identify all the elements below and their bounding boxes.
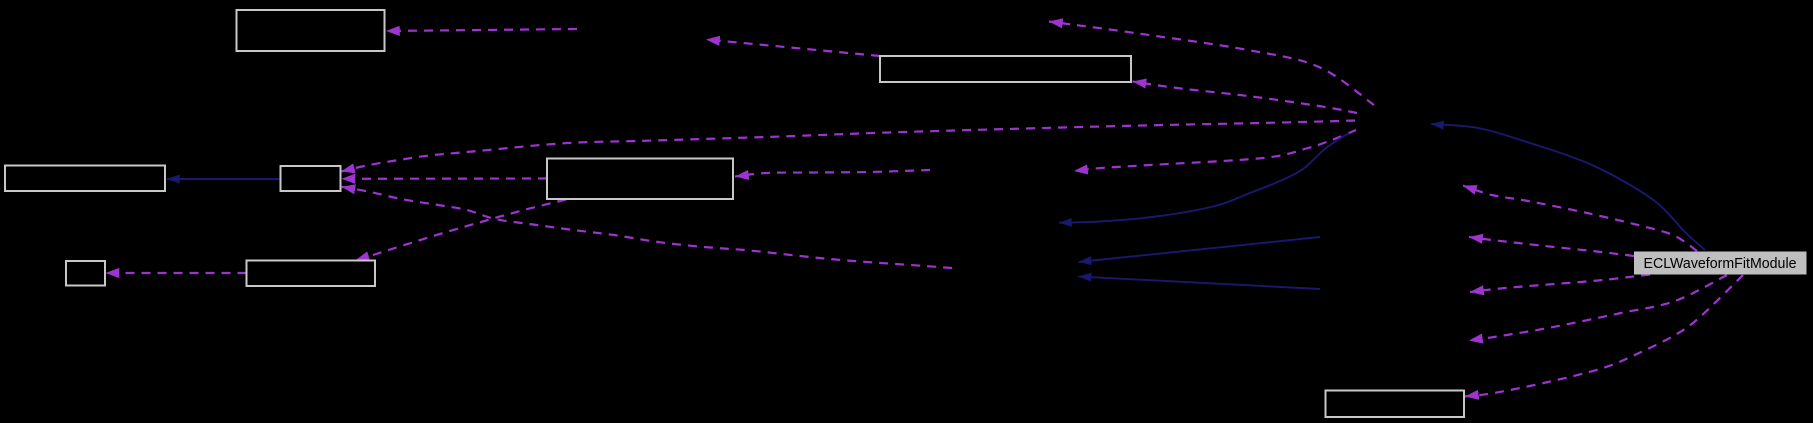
box node 2 (top-middle) bbox=[880, 56, 1131, 82]
usage edge hub to hidden top bbox=[1049, 22, 1374, 106]
box node 4 (small mid) bbox=[281, 166, 341, 191]
inherit edge hidden b4 bbox=[1079, 277, 1321, 290]
svg-text:ECLWaveformFitModule: ECLWaveformFitModule bbox=[1644, 256, 1797, 272]
inherit edge hidden b3 bbox=[1079, 237, 1321, 262]
box node 1 (top-left) bbox=[237, 10, 385, 51]
box node 7 (bottom-left) bbox=[247, 261, 376, 287]
usage edge node2 to hidden top-mid bbox=[706, 40, 880, 57]
box node 9 (bottom-right) bbox=[1326, 391, 1465, 418]
usage edge hidden to node4 low bbox=[342, 187, 953, 268]
inherit edge node4 to node3 bbox=[167, 178, 281, 180]
usage edge node7 to node6 bbox=[106, 272, 247, 274]
box node 5 (middle) bbox=[547, 159, 733, 200]
usage edge node5 to node7 bbox=[356, 200, 567, 261]
usage edge main to hidden r1 bbox=[1463, 186, 1697, 251]
box node 6 (bottom-left small) bbox=[66, 261, 105, 286]
usage edge main to hidden r4 bbox=[1469, 275, 1727, 341]
usage edge main to hidden r3 bbox=[1470, 275, 1650, 293]
usage edge hidden to node1 bbox=[386, 29, 577, 31]
usage edge hub to hidden mid-right bbox=[1074, 130, 1356, 171]
main node ECLWaveformFitModule bbox=[1634, 252, 1807, 275]
inherit edge hub to hidden left bbox=[1059, 133, 1349, 223]
box node 3 (mid-left) bbox=[5, 166, 165, 192]
usage edge hub to node4 bbox=[341, 121, 1355, 172]
usage edge main to node9 bbox=[1465, 275, 1743, 397]
inherit edge main to hub bbox=[1431, 124, 1705, 250]
usage edge main to hidden r2 bbox=[1469, 237, 1634, 256]
usage edge node5 to node4 bbox=[342, 177, 548, 180]
usage edge hidden to node5 bbox=[735, 170, 930, 177]
usage edge hub to node2 bbox=[1133, 82, 1358, 114]
